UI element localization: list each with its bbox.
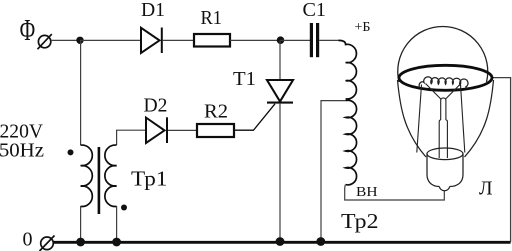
lamp Л: glass envelope upper circle: [398, 26, 488, 82]
svg-text:T1: T1: [233, 68, 256, 90]
thyristor T1: [267, 80, 293, 103]
wire: Tp1 secondary to bottom rail: [116, 206, 118, 242]
lamp Л: glass taper left: [398, 80, 427, 157]
lamp Л: glass taper right: [465, 80, 494, 157]
wire: lamp bulb to right rail riser: [492, 78, 511, 243]
lamp Л: centre contact nipple: [439, 187, 449, 191]
transformer Tp1 secondary winding (right coil): [105, 145, 117, 206]
polarity dot Tp1 primary: [68, 149, 74, 155]
lamp Л: equator ellipse (bold): [399, 65, 492, 90]
junction dot rail / T1 cathode: [276, 237, 285, 246]
wire: node B to C1: [281, 39, 311, 41]
lamp Л: stem tube: [439, 120, 447, 158]
wire: node A to D1 anode: [80, 39, 141, 41]
svg-text:+Б: +Б: [355, 20, 371, 35]
terminal 0: [40, 236, 55, 251]
lamp Л: stem flare right: [461, 85, 465, 153]
svg-text:50Hz: 50Hz: [0, 140, 44, 162]
capacitor C1: [311, 23, 317, 57]
svg-text:Ф: Ф: [20, 13, 36, 47]
node B (junction dot before C1): [277, 36, 285, 44]
wire: T1 gate lead: [234, 104, 275, 130]
lamp Л: base shell: [427, 154, 463, 187]
lamp Л: filament support right: [446, 84, 461, 100]
wire: D2 cathode to R2: [168, 129, 197, 131]
svg-text:0: 0: [23, 229, 33, 251]
wire: node B to T1 anode: [279, 40, 281, 80]
transformer Tp2 primary winding (upper coil): [339, 40, 357, 99]
svg-text:Тр2: Тр2: [341, 209, 379, 233]
svg-text:R1: R1: [201, 7, 223, 29]
wire: Tp1 secondary to D2 anode: [117, 130, 146, 145]
wire: Tp2 secondary to lamp centre contact (ВН lead): [345, 185, 445, 200]
svg-text:Тр1: Тр1: [131, 167, 168, 191]
wire: D1 cathode to R1: [163, 39, 194, 41]
lamp Л: base rim ellipse: [427, 148, 463, 160]
wire: node A down to Tp1 primary: [80, 40, 82, 145]
wire: Tp2 tap to bottom rail: [321, 101, 346, 243]
svg-text:D2: D2: [144, 95, 168, 117]
svg-text:D1: D1: [141, 0, 165, 21]
wire: Tp1 primary to bottom rail: [80, 206, 82, 242]
resistor R2: [197, 124, 234, 137]
lamp Л: filament support left: [426, 84, 441, 100]
transformer Tp1 primary winding (left coil): [81, 145, 93, 206]
junction dot rail / Tp1 secondary: [112, 238, 121, 247]
svg-text:R2: R2: [204, 101, 228, 123]
wire: C1 to Tp2 primary top: [319, 39, 340, 41]
terminal Ф: [38, 34, 52, 49]
resistor R1: [194, 34, 230, 47]
lamp Л: exhaust tube: [441, 98, 446, 120]
svg-text:C1: C1: [303, 0, 327, 21]
transformer Tp1 core: [98, 147, 101, 214]
transformer Tp2 secondary winding (lower coil): [346, 100, 357, 185]
node A (junction dot top-left): [76, 37, 83, 44]
wire: Ф terminal to node A: [51, 39, 80, 41]
junction dot rail / Tp1 primary: [76, 238, 85, 247]
diode D1: [141, 28, 162, 54]
polarity dot Tp1 secondary: [121, 205, 127, 211]
wire: T1 cathode to bottom rail: [279, 104, 281, 243]
junction dot rail / Tp2 tap: [316, 237, 325, 246]
lamp Л: filament coil: [419, 77, 468, 89]
svg-text:Л: Л: [479, 178, 493, 200]
lamp Л: stem flare left: [417, 85, 422, 153]
wire: bottom rail (neutral): [53, 241, 510, 244]
svg-text:ВН: ВН: [356, 185, 378, 200]
diode D2: [146, 117, 167, 143]
wire: R1 to node B: [230, 39, 281, 41]
